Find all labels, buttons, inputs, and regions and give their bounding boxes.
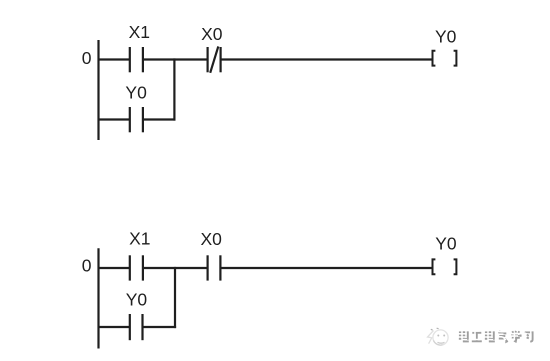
svg-text:Y0: Y0	[126, 289, 148, 309]
wire Y0 contact to branch junction rung 1	[143, 118, 176, 120]
wire rung1 rail to X1	[98, 58, 130, 60]
svg-text:0: 0	[82, 48, 92, 68]
svg-text:Y0: Y0	[125, 83, 147, 103]
wire rung1 branch: rail to Y0 contact	[98, 118, 130, 120]
wire rung2 branch: rail to Y0 contact	[98, 326, 130, 328]
branch vertical wire (parallel branch join) rung 2	[174, 267, 176, 328]
output coil Y0 (rung 1)	[433, 51, 457, 66]
contact X1 (normally open) rung 1	[130, 47, 143, 72]
watermark text 电工电气学习 (embossed)	[458, 329, 533, 342]
svg-text:Y0: Y0	[435, 233, 457, 253]
svg-text:X1: X1	[129, 229, 150, 249]
contact X1 (normally open) rung 2	[130, 255, 143, 280]
svg-text:0: 0	[82, 256, 92, 276]
svg-text:Y0: Y0	[435, 27, 457, 47]
contact X0 (normally open) rung 2	[208, 255, 221, 280]
rung 1 left power rail	[97, 40, 99, 140]
wire rung2 rail to X1	[98, 267, 130, 269]
wire X0 to output coil Y0 (rung 2)	[220, 267, 432, 269]
output coil Y0 (rung 2)	[433, 259, 457, 274]
wire Y0 contact to branch junction rung 2	[143, 326, 177, 328]
watermark logo (faint mascot icon)	[428, 328, 449, 345]
contact Y0 (normally open, seal-in branch) rung 1	[130, 107, 143, 132]
svg-text:X0: X0	[201, 24, 223, 44]
contact Y0 (normally open, seal-in branch) rung 2	[130, 314, 143, 340]
rung 2 left power rail	[97, 248, 99, 348]
svg-text:X1: X1	[129, 22, 150, 42]
wire X1 to X0 through branch junction	[143, 58, 208, 60]
wire X0 to output coil Y0 (rung 1)	[221, 58, 432, 60]
branch vertical wire (parallel branch join) rung 1	[173, 58, 175, 120]
contact X0 (normally closed) rung 1	[208, 46, 221, 72]
svg-text:X0: X0	[200, 229, 222, 249]
wire X1 to X0 through branch junction rung 2	[143, 267, 208, 269]
